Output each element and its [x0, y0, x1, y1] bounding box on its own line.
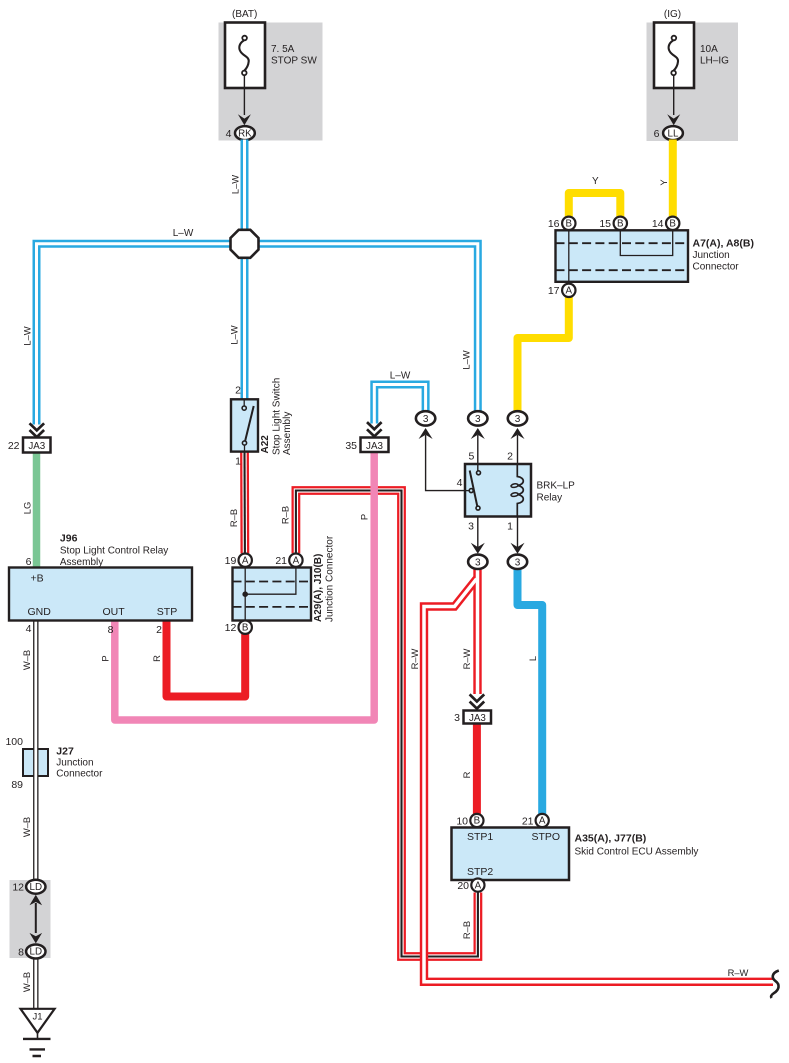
- svg-text:12: 12: [225, 622, 237, 634]
- svg-text:R–W: R–W: [409, 648, 420, 669]
- svg-text:15: 15: [599, 218, 611, 230]
- svg-text:35: 35: [345, 440, 357, 452]
- svg-text:RK: RK: [238, 128, 252, 139]
- svg-text:B: B: [242, 622, 249, 633]
- svg-text:3: 3: [475, 557, 481, 568]
- svg-text:4: 4: [457, 477, 463, 489]
- svg-text:W–B: W–B: [21, 650, 32, 670]
- svg-text:7. 5A: 7. 5A: [271, 44, 295, 55]
- svg-text:A: A: [539, 816, 546, 827]
- junction connector JA3 pin 22: [8, 438, 51, 453]
- wire relay pin 1 to node 3 oval E: [511, 517, 525, 554]
- svg-text:J96: J96: [60, 533, 78, 545]
- svg-text:3: 3: [468, 521, 474, 533]
- svg-text:B: B: [669, 219, 676, 230]
- wire W-B LD to ground J1: [21, 958, 36, 1009]
- svg-text:R–B: R–B: [279, 506, 290, 524]
- svg-text:3: 3: [515, 414, 521, 425]
- svg-text:Stop Light Control Relay: Stop Light Control Relay: [60, 546, 168, 557]
- junction connector JA3 pin 35: [345, 438, 388, 453]
- svg-text:(BAT): (BAT): [232, 9, 257, 20]
- svg-text:8: 8: [18, 946, 24, 958]
- svg-text:LL: LL: [668, 128, 679, 139]
- svg-text:A7(A), A8(B): A7(A), A8(B): [693, 237, 754, 249]
- svg-text:20: 20: [457, 880, 469, 892]
- relay BRK-LP: [457, 451, 576, 533]
- svg-text:LD: LD: [30, 882, 43, 893]
- wire node 3 to relay pin 2: [511, 428, 525, 464]
- svg-text:19: 19: [225, 555, 237, 567]
- node 3 oval D: [468, 555, 487, 569]
- svg-text:17: 17: [548, 285, 560, 297]
- wire P OUT to JA3 35: [100, 452, 375, 720]
- svg-text:JA3: JA3: [28, 441, 45, 452]
- wire R JA3 3 to ECU 10B: [461, 723, 477, 814]
- svg-text:Stop Light Switch: Stop Light Switch: [272, 378, 283, 455]
- svg-text:L–W: L–W: [230, 175, 241, 194]
- node 3 oval A: [416, 411, 435, 425]
- fuse block background (IG): [647, 23, 739, 142]
- node octagon junction L-W: [231, 230, 259, 258]
- fuse 10A LH-IG: [654, 23, 729, 89]
- svg-text:Skid Control ECU Assembly: Skid Control ECU Assembly: [575, 847, 699, 858]
- svg-text:JA3: JA3: [469, 713, 486, 724]
- relay assembly J96: [9, 533, 192, 637]
- pin 21 A: [275, 554, 302, 568]
- svg-text:B: B: [617, 219, 624, 230]
- wire relay pin 3 to node 3 oval D: [471, 517, 485, 554]
- svg-text:R–B: R–B: [461, 921, 472, 939]
- svg-text:L–W: L–W: [229, 325, 240, 344]
- wire L-W fuse RK down to octagon node: [230, 140, 245, 233]
- wire Y fuse LL to junction 14B: [658, 140, 673, 218]
- pin 16 B: [548, 217, 576, 231]
- label (IG): [664, 9, 681, 20]
- wire W-B J96 GND to J27: [21, 621, 36, 881]
- pin 17 A: [548, 284, 576, 298]
- svg-text:100: 100: [5, 736, 23, 748]
- svg-text:LG: LG: [21, 502, 32, 515]
- svg-text:A29(A), J10(B): A29(A), J10(B): [313, 554, 324, 622]
- node 3 oval E: [508, 555, 527, 569]
- label A7(A), A8(B) Junction Connector: [693, 237, 754, 272]
- pin 12 LD: [12, 880, 45, 894]
- svg-text:A: A: [475, 880, 482, 891]
- svg-text:Assembly: Assembly: [282, 412, 293, 455]
- pin 20 A: [457, 879, 484, 893]
- break symbol off-page R-W: [771, 971, 779, 999]
- svg-text:STP: STP: [157, 606, 177, 618]
- svg-text:Y: Y: [658, 179, 669, 186]
- wire LD to LD: [30, 895, 43, 944]
- svg-text:21: 21: [275, 555, 287, 567]
- svg-text:1: 1: [235, 456, 241, 468]
- svg-text:Junction: Junction: [693, 250, 730, 261]
- svg-text:P: P: [100, 655, 111, 661]
- svg-text:BRK–LP: BRK–LP: [537, 481, 576, 492]
- stop light switch A22: [231, 378, 293, 468]
- svg-text:+B: +B: [31, 573, 44, 585]
- arrow into JA3 3: [470, 694, 485, 708]
- svg-text:3: 3: [515, 557, 521, 568]
- svg-text:3: 3: [454, 712, 460, 724]
- pin 15 B: [599, 217, 627, 231]
- svg-text:OUT: OUT: [103, 606, 126, 618]
- pin 4 RK: [226, 126, 255, 140]
- svg-text:3: 3: [475, 414, 481, 425]
- svg-text:LH–IG: LH–IG: [700, 56, 729, 67]
- svg-text:6: 6: [654, 128, 660, 140]
- wire L-W middle branch to switch A22: [229, 256, 245, 399]
- svg-text:22: 22: [8, 440, 20, 452]
- wire Y loop 16B to 15B: [569, 176, 621, 217]
- svg-text:STP1: STP1: [467, 831, 493, 843]
- svg-text:2: 2: [156, 624, 162, 636]
- svg-text:L–W: L–W: [461, 350, 472, 369]
- svg-text:3: 3: [423, 414, 429, 425]
- svg-text:A: A: [242, 555, 249, 566]
- wire LG JA3 22 to J96: [21, 452, 36, 567]
- svg-text:R–W: R–W: [461, 648, 472, 669]
- svg-text:12: 12: [12, 882, 24, 894]
- wire R-B junction 21A loop to ECU 20A: [279, 491, 478, 957]
- wire node 3 to relay pin 5: [471, 428, 485, 471]
- svg-text:B: B: [566, 219, 573, 230]
- svg-text:B: B: [474, 816, 481, 827]
- arrow into JA3 22: [30, 423, 45, 437]
- svg-text:P: P: [359, 514, 370, 520]
- svg-text:A: A: [293, 555, 300, 566]
- node 3 oval B: [468, 411, 487, 425]
- wire R-W relay pin3 node to JA3 3 and off-page branch: [409, 569, 773, 982]
- arrow into JA3 35: [367, 422, 382, 436]
- svg-text:2: 2: [507, 451, 513, 463]
- pin 14 B: [652, 217, 680, 231]
- pin 6 LL: [654, 126, 683, 140]
- pin 19 A: [225, 554, 252, 568]
- svg-text:(IG): (IG): [664, 9, 681, 20]
- svg-text:A35(A), J77(B): A35(A), J77(B): [575, 833, 647, 845]
- svg-text:Y: Y: [592, 176, 599, 187]
- junction connector JA3 pin 3: [454, 711, 491, 725]
- svg-text:JA3: JA3: [366, 441, 383, 452]
- wire node 3 to relay pin 4: [419, 428, 465, 491]
- fuse block background (BAT): [219, 23, 323, 141]
- wire R-B switch A22 to junction 19A: [228, 452, 245, 554]
- svg-text:STPO: STPO: [532, 831, 561, 843]
- svg-text:L–W: L–W: [21, 326, 32, 345]
- svg-text:Relay: Relay: [537, 493, 563, 504]
- svg-text:10: 10: [456, 815, 468, 827]
- svg-text:14: 14: [652, 218, 664, 230]
- pin 8 LD: [18, 945, 45, 959]
- pin 12 B: [225, 621, 252, 635]
- wire L-W right branch to relay pin5 node: [247, 244, 478, 412]
- svg-text:16: 16: [548, 218, 560, 230]
- svg-text:4: 4: [226, 128, 232, 140]
- svg-text:STOP SW: STOP SW: [271, 56, 317, 67]
- svg-text:Connector: Connector: [693, 261, 740, 272]
- svg-text:W–B: W–B: [21, 817, 32, 837]
- fuse 7.5A STOP SW: [225, 23, 317, 89]
- svg-text:A: A: [566, 286, 573, 297]
- svg-text:L–W: L–W: [390, 371, 411, 382]
- wire Y junction 17A to relay pin2 node: [518, 297, 569, 413]
- svg-text:J27: J27: [56, 746, 74, 758]
- skid control ECU A35(A), J77(B): [452, 828, 699, 881]
- svg-text:GND: GND: [28, 606, 52, 618]
- svg-text:8: 8: [108, 624, 114, 636]
- ground J1: [21, 1009, 55, 1056]
- svg-text:1: 1: [507, 521, 513, 533]
- svg-text:5: 5: [468, 451, 474, 463]
- wire L relay pin1 node to ECU 21A: [518, 569, 543, 815]
- svg-text:6: 6: [26, 556, 32, 568]
- svg-text:R: R: [151, 655, 162, 662]
- wire L-W left branch to JA3 22: [21, 228, 242, 424]
- svg-text:R–W: R–W: [728, 967, 749, 978]
- pin 21 A: [522, 814, 549, 828]
- svg-text:Connector: Connector: [56, 769, 103, 780]
- label (BAT): [232, 9, 257, 20]
- svg-text:R–B: R–B: [228, 509, 239, 527]
- svg-text:4: 4: [26, 623, 32, 635]
- wire fuse BAT to RK: [238, 75, 251, 125]
- svg-text:10A: 10A: [700, 44, 718, 55]
- svg-text:Junction: Junction: [56, 758, 93, 769]
- svg-text:J1: J1: [32, 1012, 42, 1023]
- node 3 oval C: [508, 411, 527, 425]
- junction connector J27: [5, 736, 103, 791]
- svg-text:2: 2: [235, 385, 241, 397]
- svg-text:L–W: L–W: [173, 228, 194, 239]
- wire L-W relay pin4 node to JA3 35: [374, 371, 425, 424]
- svg-text:Junction Connector: Junction Connector: [325, 535, 336, 622]
- wire fuse IG to LL: [667, 75, 680, 125]
- svg-text:W–B: W–B: [21, 972, 32, 992]
- svg-text:L: L: [527, 656, 538, 661]
- svg-text:LD: LD: [30, 947, 43, 958]
- svg-text:R: R: [461, 771, 472, 778]
- junction connector A7(A) A8(B): [556, 230, 689, 283]
- junction connector A29(A), J10(B): [233, 535, 336, 622]
- svg-text:STP2: STP2: [467, 866, 493, 878]
- wire R STP to junction 12B: [151, 621, 245, 697]
- svg-text:89: 89: [11, 779, 23, 791]
- svg-text:Assembly: Assembly: [60, 557, 103, 568]
- pin 10 B: [456, 814, 483, 828]
- svg-text:21: 21: [522, 815, 534, 827]
- svg-text:A22: A22: [260, 435, 271, 454]
- shielding block LD: [10, 880, 51, 958]
